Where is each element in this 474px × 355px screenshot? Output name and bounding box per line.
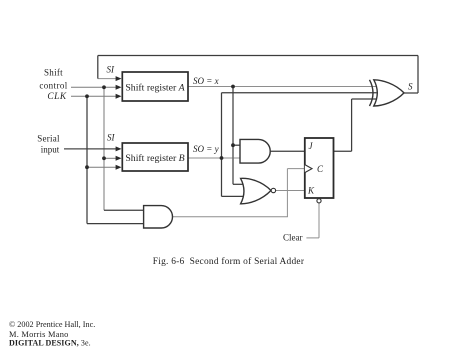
- svg-text:SI: SI: [107, 133, 116, 143]
- svg-text:Fig. 6-6 Second form of Seria: Fig. 6-6 Second form of Serial Adder: [153, 256, 305, 267]
- svg-text:Shift: Shift: [44, 68, 63, 78]
- svg-text:C: C: [317, 164, 324, 174]
- svg-text:DIGITAL DESIGN, 3e.: DIGITAL DESIGN, 3e.: [9, 338, 91, 347]
- svg-text:K: K: [307, 186, 315, 196]
- svg-text:Shift register A: Shift register A: [125, 83, 185, 94]
- svg-text:SO = y: SO = y: [193, 144, 219, 154]
- svg-text:Shift register B: Shift register B: [125, 153, 184, 164]
- svg-text:© 2002 Prentice Hall, Inc.: © 2002 Prentice Hall, Inc.: [9, 320, 95, 329]
- svg-text:SI: SI: [107, 65, 116, 75]
- svg-text:control: control: [39, 81, 67, 91]
- svg-text:CLK: CLK: [47, 92, 66, 102]
- svg-text:Clear: Clear: [283, 233, 303, 243]
- svg-text:input: input: [41, 145, 60, 155]
- svg-text:SO = x: SO = x: [193, 76, 219, 86]
- svg-text:Serial: Serial: [37, 134, 60, 144]
- svg-text:S: S: [408, 82, 413, 92]
